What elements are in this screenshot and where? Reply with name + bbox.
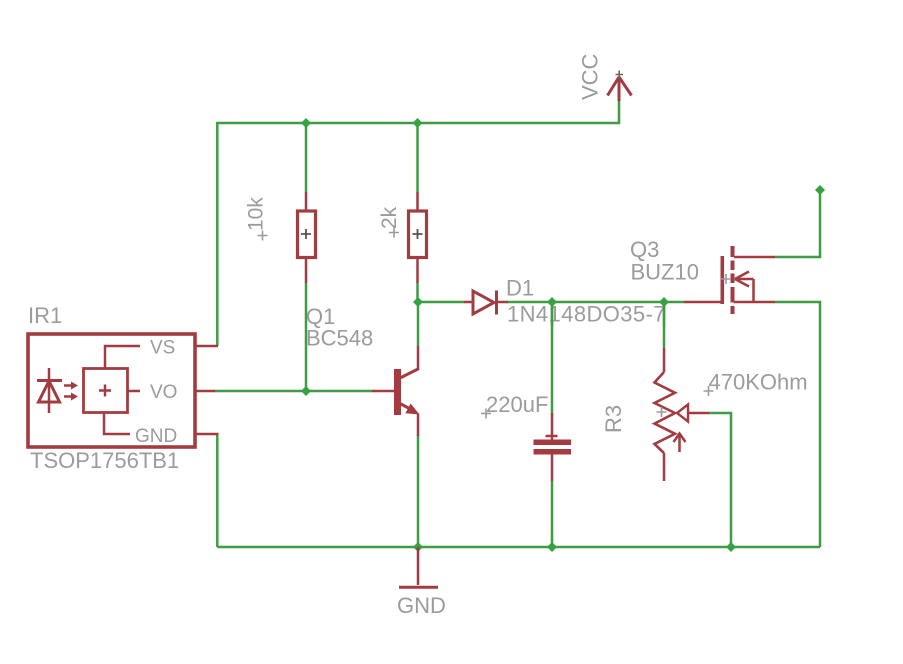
svg-text:GND: GND <box>135 426 177 447</box>
detector block inside IR1 <box>84 369 128 413</box>
svg-text:IR1: IR1 <box>28 303 62 328</box>
light arrow 2 <box>64 393 78 401</box>
light arrow 1 <box>64 382 78 390</box>
svg-text:D1: D1 <box>506 276 534 301</box>
diode D1 1N4148 <box>464 291 508 315</box>
wire R3 wiper to rail <box>709 413 731 547</box>
R3 adjust arrow <box>674 434 686 453</box>
potentiometer R3 470KOhm <box>655 348 676 481</box>
wire D1 cathode to Q3 gate <box>507 301 684 304</box>
origin cross 2k <box>389 228 399 238</box>
origin cross 470KOhm <box>704 386 714 396</box>
IC IR1 TSOP1756TB1 box <box>28 334 195 447</box>
svg-text:BC548: BC548 <box>306 326 373 351</box>
MOSFET Q3 BUZ10 <box>684 246 775 314</box>
node drain stub endpoint <box>815 185 825 195</box>
photodiode inside IR1 <box>37 368 62 413</box>
capacitor C1 220uF <box>534 413 572 481</box>
svg-text:1N4148DO35-7: 1N4148DO35-7 <box>507 302 666 327</box>
wire 2k top <box>416 123 419 192</box>
wire 10k top <box>305 123 308 192</box>
svg-text:2k: 2k <box>378 206 401 229</box>
svg-text:VO: VO <box>150 382 177 403</box>
node junction 2k/top rail <box>413 118 423 128</box>
node R3 top junction <box>659 297 669 307</box>
svg-text:R3: R3 <box>601 405 626 433</box>
wire cap bottom to rail <box>551 481 554 547</box>
node gnd rail / wiper junction <box>726 542 736 552</box>
wire overdraw R3 riser over label <box>663 303 666 326</box>
node collector junction <box>413 297 423 307</box>
svg-text:220uF: 220uF <box>486 392 548 417</box>
wire Q3 source down to rail <box>775 302 820 547</box>
node gnd rail / emitter junction <box>413 542 423 552</box>
wire 10k bottom to base net <box>305 283 308 391</box>
svg-text:GND: GND <box>397 593 446 618</box>
wire Q3 drain up to stub <box>775 190 820 257</box>
wire ground rail <box>217 546 820 549</box>
resistor R1 10k body <box>298 192 316 283</box>
pin VO <box>195 390 215 393</box>
svg-text:TSOP1756TB1: TSOP1756TB1 <box>30 448 179 473</box>
svg-text:BUZ10: BUZ10 <box>631 260 699 285</box>
origin cross Q3 <box>721 274 731 284</box>
IR1 internal GND lead <box>104 413 130 435</box>
node gnd rail / cap junction <box>547 542 557 552</box>
ground symbol GND <box>399 547 438 587</box>
IR1 internal VO lead <box>128 390 141 393</box>
node junction 10k/base <box>301 386 311 396</box>
power VCC symbol <box>608 71 632 102</box>
wire base net (VO to Q1 base) <box>214 390 373 393</box>
origin cross 220uF <box>481 409 491 419</box>
wire 2k bottom to collector node <box>416 283 419 302</box>
wire collector node to D1 anode <box>418 301 464 304</box>
origin cross R3 <box>657 407 667 417</box>
resistor R2 2k body <box>409 192 427 283</box>
svg-text:470KOhm: 470KOhm <box>709 370 808 395</box>
wire emitter down to rail <box>417 435 420 547</box>
wire collector node down to Q1 collector <box>417 302 420 346</box>
transistor Q1 BC548 <box>372 346 420 436</box>
svg-text:VS: VS <box>150 338 175 359</box>
wire R3 top branch <box>663 302 666 348</box>
svg-text:10k: 10k <box>245 197 268 231</box>
wire overdraw cap riser over label <box>551 303 554 326</box>
pin GND (IR1) <box>195 433 219 436</box>
origin cross 10k <box>258 231 268 241</box>
node cap top junction <box>547 297 557 307</box>
svg-text:Q3: Q3 <box>630 237 659 262</box>
IR1 internal VS lead <box>105 346 140 369</box>
R3 wiper arrow <box>677 405 709 422</box>
wire cap top branch <box>551 302 554 414</box>
node junction 10k/top rail <box>301 118 311 128</box>
svg-text:VCC: VCC <box>578 53 603 100</box>
wire top rail VCC <box>217 100 619 346</box>
pin VS <box>195 345 218 348</box>
wire IR1 gnd down to rail <box>216 434 219 547</box>
